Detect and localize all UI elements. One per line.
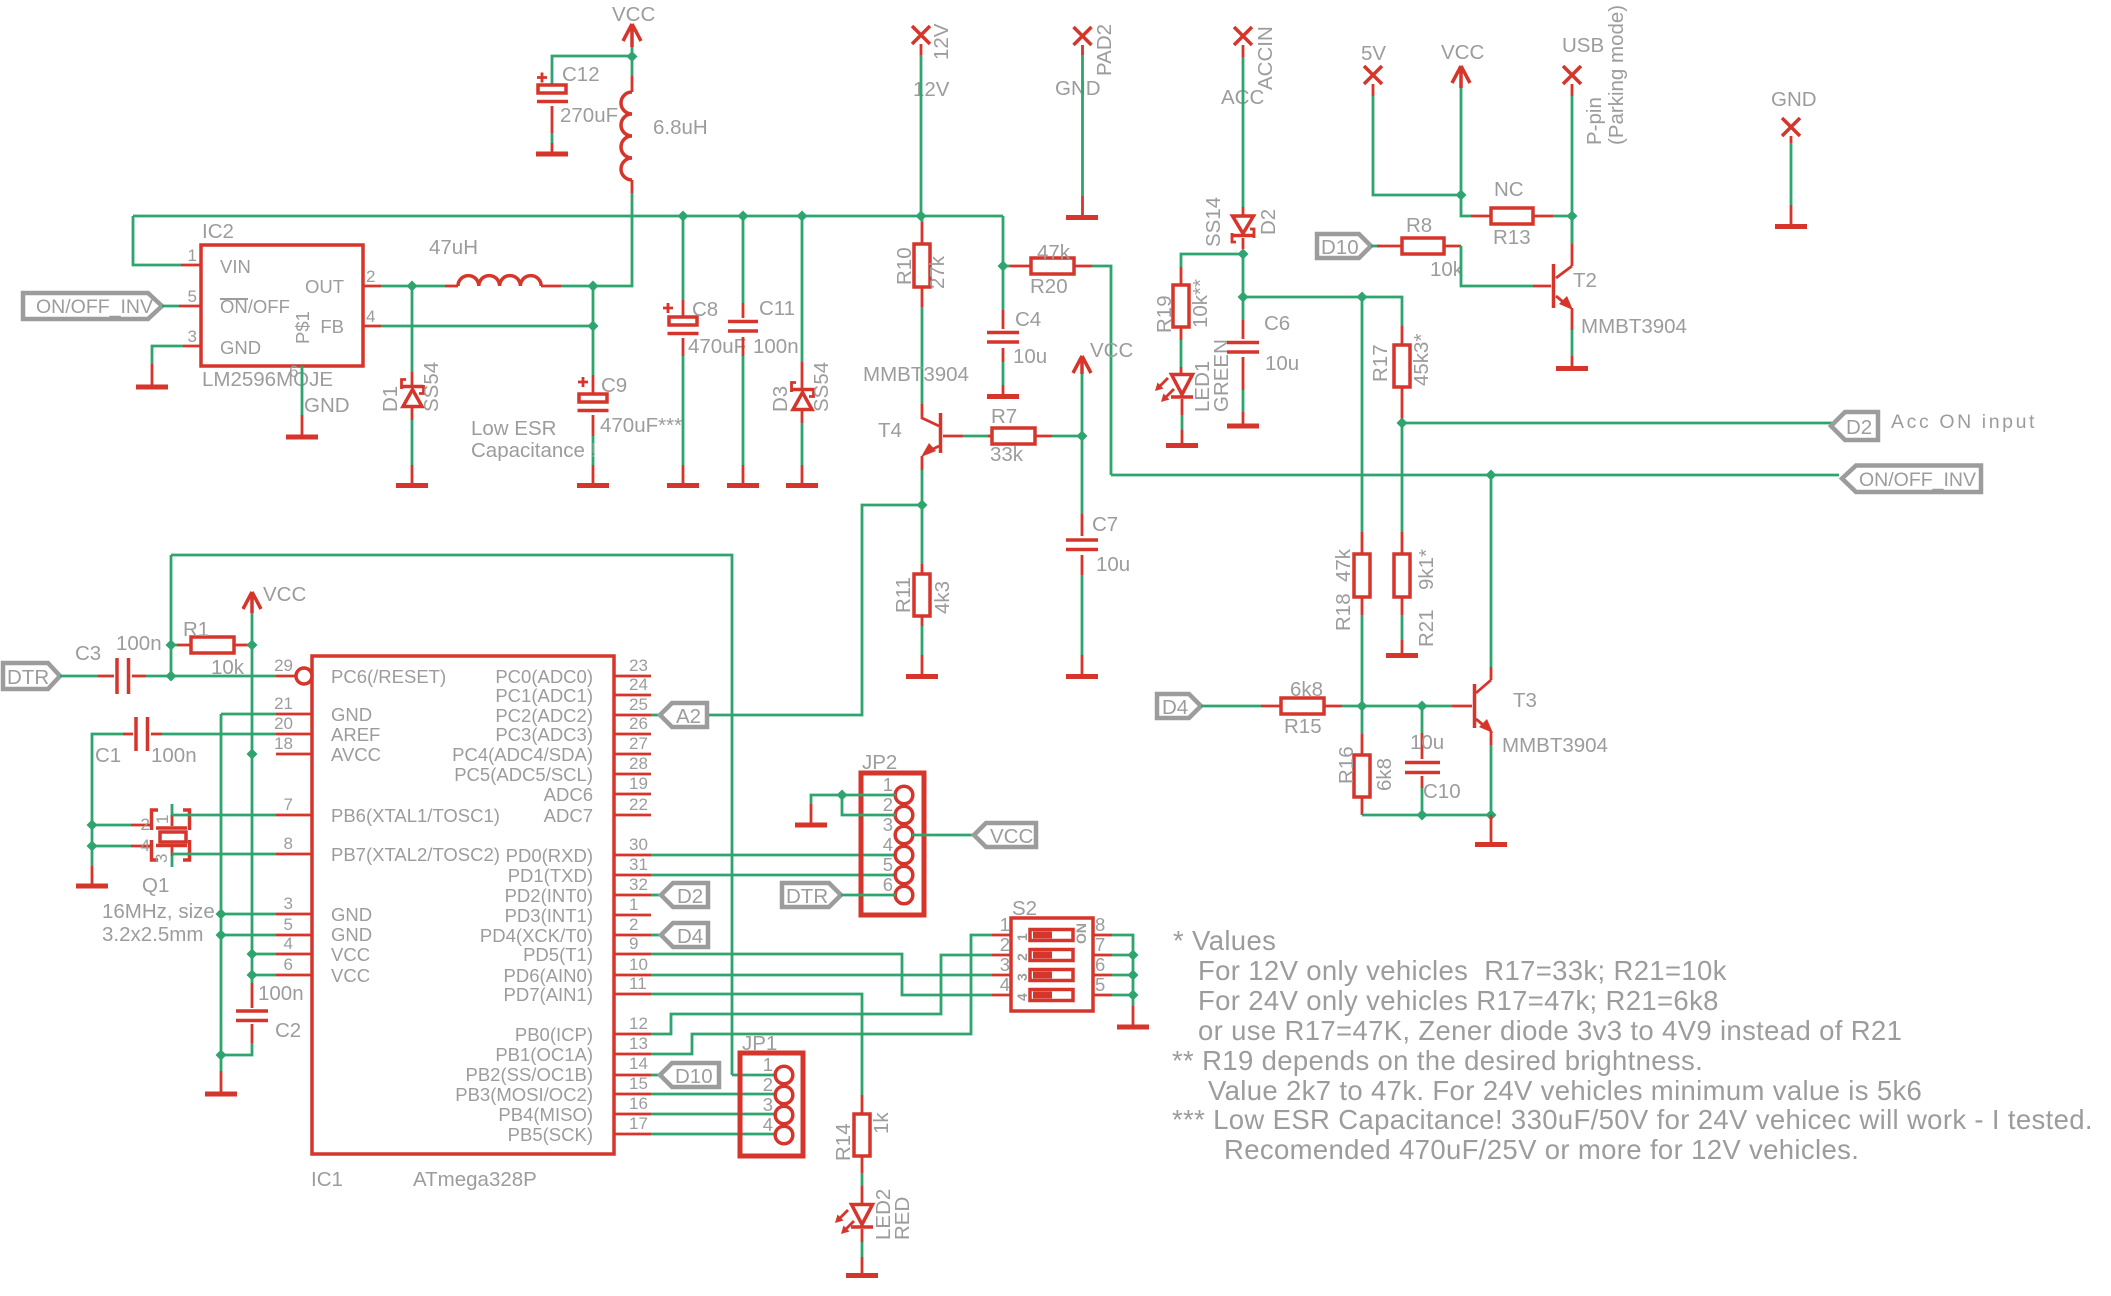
wire VCC arrow down (251, 613, 254, 645)
wire PB6 (172, 814, 276, 817)
wire VCC to R7 node (1081, 374, 1084, 436)
wire reset vertical (170, 555, 173, 676)
junction S2 pin7 (1128, 950, 1139, 961)
tag ON/OFF_INV left (23, 293, 162, 319)
svg-text:10k: 10k (1430, 258, 1464, 281)
tag DTR left (3, 663, 60, 689)
wire reset to JP1 pin1 (732, 1074, 776, 1077)
svg-text:16: 16 (629, 1094, 648, 1113)
svg-text:4k3: 4k3 (931, 581, 954, 614)
ground R21 (1386, 640, 1418, 656)
power flag VCC right (1441, 41, 1484, 88)
svg-text:R18: R18 (1332, 593, 1355, 631)
svg-text:6: 6 (289, 362, 298, 381)
wire C9 to gnd (592, 436, 595, 465)
svg-text:A2: A2 (676, 705, 701, 728)
wire JP2 pin3 to VCC tag (912, 834, 974, 837)
junction R1 right VCC (247, 640, 258, 651)
wire D2 node to R19 (1181, 254, 1243, 267)
svg-text:18: 18 (274, 734, 293, 753)
svg-text:6: 6 (284, 955, 293, 974)
svg-text:7: 7 (284, 795, 293, 814)
wire junction to C10 junction (1362, 705, 1422, 708)
junction AVCC (247, 749, 258, 760)
svg-text:6.8uH: 6.8uH (653, 116, 708, 139)
wire R14 to LED2 (861, 1173, 864, 1186)
svg-text:47uH: 47uH (429, 236, 478, 259)
svg-text:ATmega328P: ATmega328P (413, 1168, 537, 1191)
capacitor C7 (1066, 513, 1130, 576)
svg-text:26: 26 (629, 714, 648, 733)
junction USB R13 T2 (1567, 211, 1578, 222)
svg-text:PC1(ADC1): PC1(ADC1) (495, 685, 593, 706)
junction R18 line (1357, 292, 1368, 303)
capacitor C10 (1405, 731, 1461, 803)
svg-text:VCC: VCC (263, 583, 306, 606)
wire C7 to gnd (1081, 575, 1084, 655)
wire D3 to gnd (801, 423, 804, 465)
svg-text:25: 25 (629, 695, 648, 714)
wire C1 left down (92, 734, 123, 825)
LED LED2 RED (835, 1186, 914, 1242)
capacitor C1 (95, 717, 197, 767)
dip switch S2 (992, 897, 1112, 1011)
junction FB C9 (588, 321, 599, 332)
svg-text:GND: GND (304, 394, 350, 417)
svg-text:C11: C11 (759, 297, 795, 320)
wire pin5 gnd (221, 934, 276, 937)
junction reset C3 (166, 671, 177, 682)
svg-text:100n: 100n (258, 982, 304, 1005)
IC1 right pins (614, 656, 651, 1134)
wire R15 to junction (1342, 705, 1362, 708)
wire R13 to USB line (1553, 215, 1572, 218)
wire USB node to T2 collector (1571, 216, 1574, 244)
junction bus C11 (738, 211, 749, 222)
wire R20 to ON/OFF_INV line (1092, 266, 1111, 475)
resistor R10 (893, 222, 949, 307)
svg-text:C3: C3 (75, 642, 101, 665)
svg-text:20: 20 (274, 714, 293, 733)
svg-text:** R19 depends on the desired: ** R19 depends on the desired brightness… (1172, 1045, 1703, 1076)
svg-text:10u: 10u (1410, 731, 1444, 754)
svg-text:GREEN: GREEN (1210, 339, 1233, 412)
svg-text:D1: D1 (379, 386, 402, 412)
ground IC2 pin6 (286, 415, 318, 437)
wire bus corner to R20 node (1002, 216, 1005, 266)
wire pin15 to JP1 pin2 (651, 1093, 776, 1096)
wire junction to R20 (1003, 265, 1010, 268)
svg-text:GND: GND (1771, 88, 1817, 111)
tag A2 (651, 703, 707, 728)
wire VCC to node (1460, 88, 1463, 195)
wire JP2 pin1 gnd (811, 795, 896, 804)
wire R1 right (248, 644, 252, 647)
svg-text:21: 21 (274, 694, 293, 713)
tag VCC JP2 (974, 823, 1036, 848)
svg-text:1: 1 (1014, 933, 1030, 941)
diode D1 SS54 (379, 362, 443, 420)
svg-text:14: 14 (629, 1054, 648, 1073)
wire OUT node to D1 (411, 286, 414, 372)
wire PB7 (172, 853, 276, 856)
inductor L1 47uH (429, 236, 561, 286)
wire R17 node to R21 (1401, 423, 1404, 532)
pin 2 OUT (363, 285, 381, 288)
svg-text:30: 30 (629, 835, 648, 854)
wire crystal gnd vertical (91, 825, 94, 866)
svg-text:FB: FB (320, 316, 344, 337)
power pin 5V (1361, 42, 1386, 96)
wire pin3 to gnd (152, 346, 183, 364)
capacitor C6 (1227, 312, 1299, 390)
wire D4 tag to R15 (1201, 705, 1261, 708)
wire 47uH to FB node (561, 285, 593, 288)
svg-text:8: 8 (284, 834, 293, 853)
svg-text:12V: 12V (930, 23, 953, 60)
svg-text:R15: R15 (1284, 715, 1322, 738)
node VCC top junction (627, 51, 638, 62)
svg-text:IC1: IC1 (311, 1168, 343, 1191)
svg-text:4: 4 (284, 934, 293, 953)
svg-text:12: 12 (629, 1014, 648, 1033)
svg-text:10: 10 (629, 955, 648, 974)
wire ON/OFF_INV line (1111, 474, 1839, 477)
svg-text:MMBT3904: MMBT3904 (1502, 734, 1608, 757)
svg-text:R13: R13 (1493, 226, 1531, 249)
resistor R21 (1394, 532, 1438, 647)
svg-text:GND: GND (220, 337, 261, 358)
wire node to R13 (1461, 195, 1471, 216)
svg-text:27: 27 (629, 734, 648, 753)
junction S2 pin5 (1128, 990, 1139, 1001)
svg-text:D10: D10 (675, 1065, 713, 1088)
wire to T3 base (1422, 705, 1452, 708)
junction R17 R21 D2 line (1397, 418, 1408, 429)
IC1 ATmega328P block (311, 656, 614, 1191)
svg-text:LM2596MOJE: LM2596MOJE (202, 368, 333, 391)
svg-text:Recomended 470uF/25V or more f: Recomended 470uF/25V or more for 12V veh… (1224, 1134, 1859, 1165)
wire 5V to VCC node (1373, 96, 1461, 195)
svg-text:100n: 100n (753, 335, 799, 358)
ground D1 (396, 465, 428, 486)
resistor R7 (963, 405, 1052, 466)
svg-text:29: 29 (274, 656, 293, 675)
wire junction to C10 (1421, 706, 1424, 733)
svg-text:C12: C12 (562, 63, 600, 86)
svg-text:ON/OFF_INV: ON/OFF_INV (36, 296, 153, 318)
svg-text:VCC: VCC (1441, 41, 1484, 64)
wire S2 pin7 (1112, 954, 1133, 957)
wire crystal pin2 (92, 824, 131, 827)
power flag VCC at R1 (243, 583, 306, 613)
svg-text:5: 5 (284, 915, 293, 934)
wire PD7 to R14 (651, 994, 862, 1095)
ground IC2 pin3 (136, 364, 168, 387)
junction gnd bus C2 (216, 1050, 227, 1061)
svg-text:3: 3 (883, 814, 893, 835)
junction T3 collector (1486, 470, 1497, 481)
svg-text:8: 8 (1095, 914, 1105, 935)
svg-text:470uF***: 470uF*** (600, 414, 682, 437)
capacitor C3 (75, 632, 162, 694)
wire pin3 gnd (221, 913, 276, 916)
svg-text:ADC7: ADC7 (544, 805, 593, 826)
svg-text:3: 3 (284, 894, 293, 913)
svg-text:* Values: * Values (1173, 925, 1276, 956)
svg-text:R10: R10 (893, 247, 916, 285)
resistor R15 (1261, 678, 1342, 738)
svg-text:USB: USB (1562, 34, 1604, 57)
wire 12V bus (133, 215, 1003, 218)
wire pin6 vcc (252, 974, 276, 977)
tag DTR JP2 (782, 883, 841, 908)
junction D4 line R18 R16 (1357, 701, 1368, 712)
svg-text:R14: R14 (832, 1123, 855, 1161)
svg-text:3: 3 (1000, 954, 1010, 975)
pin 29 PC6 reset bubble (274, 656, 312, 684)
wire junction to C4 (1002, 266, 1005, 310)
note Low ESR (471, 417, 596, 462)
svg-text:D2: D2 (677, 885, 703, 908)
svg-text:470uF: 470uF (688, 335, 746, 358)
wire pin21 GND (221, 713, 276, 716)
svg-text:PC4(ADC4/SDA): PC4(ADC4/SDA) (452, 744, 593, 765)
svg-text:C9: C9 (601, 374, 627, 397)
IC1 left pin names (331, 666, 500, 986)
svg-text:6: 6 (883, 874, 893, 895)
svg-text:AREF: AREF (331, 724, 380, 745)
junction R1 left (166, 640, 177, 651)
junction crystal pin4 (87, 841, 98, 852)
junction R7 VCC C7 (1077, 431, 1088, 442)
svg-text:SS14: SS14 (1202, 197, 1225, 247)
junction D2 R19 (1238, 249, 1249, 260)
svg-text:C6: C6 (1264, 312, 1290, 335)
svg-text:28: 28 (629, 754, 648, 773)
svg-text:R8: R8 (1406, 214, 1432, 237)
svg-text:23: 23 (629, 656, 648, 675)
svg-text:Low ESR: Low ESR (471, 417, 556, 440)
svg-text:11: 11 (629, 974, 647, 993)
wire pin6 down (301, 366, 304, 415)
resistor R18 (1332, 532, 1370, 631)
wire PD1 to JP2 pin5 (651, 874, 896, 877)
svg-text:SS54: SS54 (810, 362, 833, 412)
svg-text:R1: R1 (183, 618, 209, 641)
wire reset net top run (171, 555, 732, 1075)
transistor T4 (863, 363, 969, 470)
svg-text:MMBT3904: MMBT3904 (1581, 315, 1687, 338)
tag D2 pin32 (651, 883, 708, 908)
svg-text:R19: R19 (1153, 295, 1176, 333)
svg-text:17: 17 (629, 1114, 648, 1133)
svg-text:PAD2: PAD2 (1093, 24, 1116, 76)
wire PB1 to S2 pin1 (651, 935, 992, 1054)
svg-text:45k3*: 45k3* (1410, 334, 1433, 386)
wire OUT to junction (381, 285, 445, 288)
svg-text:R11: R11 (892, 577, 915, 613)
wire R18 bottom to D4 line (1361, 615, 1364, 706)
svg-text:5: 5 (883, 854, 893, 875)
wire bus to D3 (801, 216, 804, 362)
wire T3 collector to ON/OFF_INV (1490, 475, 1493, 667)
ground GND pin (1775, 205, 1807, 227)
wire tag to pin5 (162, 305, 179, 308)
svg-text:MMBT3904: MMBT3904 (863, 363, 969, 386)
svg-text:2: 2 (1000, 934, 1010, 955)
svg-text:2: 2 (763, 1074, 773, 1095)
svg-text:PB1(OC1A): PB1(OC1A) (495, 1044, 593, 1065)
svg-text:4: 4 (141, 836, 150, 855)
wire crystal pin4 (92, 845, 131, 848)
tag D10 right (1317, 234, 1371, 259)
tag D10 pin14 (651, 1063, 719, 1088)
svg-text:100n: 100n (151, 744, 197, 767)
wire PB0 to S2 pin2 (651, 955, 992, 1034)
svg-text:2: 2 (366, 267, 375, 286)
wire LED2 to gnd (861, 1242, 864, 1257)
junction C6 node (1238, 292, 1249, 303)
svg-text:3.2x2.5mm: 3.2x2.5mm (102, 923, 203, 946)
svg-text:NC: NC (1494, 178, 1524, 201)
svg-text:Capacitance !: Capacitance ! (471, 439, 596, 462)
svg-text:PB6(XTAL1/TOSC1): PB6(XTAL1/TOSC1) (331, 805, 500, 826)
capacitor C12 (537, 63, 618, 133)
wire PD0 to JP2 pin4 (651, 854, 896, 857)
resistor R16 (1335, 734, 1396, 815)
svg-text:GND: GND (331, 904, 372, 925)
junction R20 C4 (998, 261, 1009, 272)
svg-text:GND: GND (331, 924, 372, 945)
svg-text:C7: C7 (1092, 513, 1118, 536)
pin 3 GND (183, 345, 201, 348)
junction VCC pin4 (247, 949, 258, 960)
capacitor C8 (663, 298, 746, 358)
wire bus down to VIN (133, 216, 181, 265)
junction T4 emitter R11 (917, 500, 928, 511)
resistor R1 (177, 618, 248, 679)
pin 5 ON/OFF (179, 305, 201, 308)
svg-text:D4: D4 (1162, 696, 1188, 719)
svg-text:5: 5 (188, 287, 197, 306)
junction bus D3 (797, 211, 808, 222)
svg-text:IC2: IC2 (202, 220, 234, 243)
ground C11 (727, 465, 759, 486)
svg-text:5: 5 (1095, 974, 1105, 995)
svg-text:P-pin: P-pin (1583, 97, 1606, 145)
wire ACCIN to D2 (1242, 57, 1245, 207)
svg-text:10u: 10u (1265, 352, 1299, 375)
pin 4 FB (363, 325, 381, 328)
ground JP2 (795, 804, 827, 825)
resistor R8 (1371, 214, 1464, 281)
svg-text:Acc ON input: Acc ON input (1891, 411, 2037, 433)
svg-text:Q1: Q1 (142, 874, 169, 897)
svg-text:6k8: 6k8 (1290, 678, 1323, 701)
svg-text:VCC: VCC (331, 944, 370, 965)
tag D4 input (1157, 694, 1201, 719)
wire PD6 to S2 pin3 (651, 974, 992, 977)
svg-text:19: 19 (629, 774, 648, 793)
wire pin4 vcc (252, 953, 276, 956)
wire R18 top (1361, 297, 1364, 532)
wire Acc ON input line (1402, 422, 1833, 425)
svg-text:VCC: VCC (1090, 339, 1133, 362)
svg-text:SS54: SS54 (420, 362, 443, 412)
wire GND bus (220, 714, 223, 1055)
svg-text:RED: RED (891, 1197, 914, 1240)
ground D3 (786, 465, 818, 486)
junction JP2 pin1 (837, 790, 848, 801)
tag D2 Acc ON input (1831, 411, 2037, 440)
junction OUT node (407, 281, 418, 292)
power flag VCC top (612, 3, 655, 47)
svg-text:DTR: DTR (7, 666, 49, 689)
svg-text:10u: 10u (1096, 553, 1130, 576)
ground C4 (987, 385, 1019, 397)
wire GND pin down (1790, 143, 1793, 205)
svg-text:47k: 47k (1037, 241, 1071, 264)
svg-text:7: 7 (1095, 934, 1105, 955)
connector JP1 (740, 1032, 803, 1156)
wire VCC node to C7 (1081, 436, 1084, 514)
svg-text:VCC: VCC (331, 965, 370, 986)
svg-text:9k1*: 9k1* (1415, 549, 1438, 590)
svg-text:D4: D4 (677, 925, 703, 948)
svg-text:or use R17=47K, Zener diode 3v: or use R17=47K, Zener diode 3v3 to 4V9 i… (1198, 1015, 1902, 1046)
junction GND pin5 (216, 930, 227, 941)
svg-text:C2: C2 (275, 1019, 301, 1042)
junction bottom line C10 (1417, 810, 1428, 821)
wire VCC node to inductor (631, 56, 634, 76)
svg-text:47k: 47k (1332, 548, 1355, 582)
wire 12V pin to bus (920, 55, 923, 216)
svg-text:PC5(ADC5/SCL): PC5(ADC5/SCL) (454, 764, 593, 785)
svg-text:PC2(ADC2): PC2(ADC2) (495, 705, 593, 726)
svg-text:5V: 5V (1361, 42, 1386, 65)
wire bus to C11 (742, 216, 745, 303)
wire S2 pin5 (1112, 994, 1133, 997)
svg-text:2: 2 (629, 915, 638, 934)
svg-text:PB5(SCK): PB5(SCK) (508, 1124, 593, 1145)
svg-text:6: 6 (1095, 954, 1105, 975)
svg-text:270uF: 270uF (560, 104, 618, 127)
svg-text:4: 4 (1014, 993, 1030, 1001)
svg-text:R21: R21 (1415, 609, 1438, 647)
junction crystal pin2 (87, 820, 98, 831)
svg-text:OUT: OUT (305, 276, 344, 297)
svg-text:1: 1 (629, 895, 638, 914)
svg-text:JP1: JP1 (742, 1032, 777, 1055)
svg-text:AVCC: AVCC (331, 744, 381, 765)
wire bus to R10 (921, 216, 924, 222)
svg-text:12V: 12V (913, 78, 950, 101)
svg-text:4: 4 (366, 307, 375, 326)
wire R10 to T4 collector (921, 307, 924, 404)
svg-text:GND: GND (1055, 77, 1101, 100)
capacitor C2 (236, 982, 304, 1043)
svg-text:PD4(XCK/T0): PD4(XCK/T0) (480, 925, 593, 946)
wire T2 emitter to gnd (1571, 330, 1574, 356)
svg-text:10k**: 10k** (1189, 279, 1212, 328)
wire R1 left (171, 644, 177, 647)
svg-text:PC3(ADC3): PC3(ADC3) (495, 724, 593, 745)
svg-text:*** Low ESR Capacitance! 330uF: *** Low ESR Capacitance! 330uF/50V for 2… (1172, 1104, 2093, 1135)
svg-text:VCC: VCC (612, 3, 655, 26)
wire VCC arrow to node (631, 47, 634, 56)
ground C6 (1227, 412, 1259, 426)
